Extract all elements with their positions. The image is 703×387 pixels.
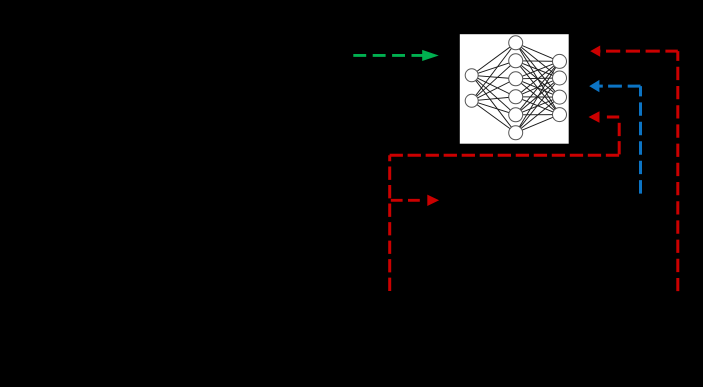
neural network nodes layer1 bbox=[465, 36, 566, 140]
blue arrow into agent (value/TD signal) bbox=[589, 80, 640, 195]
red branch arrow to environment bbox=[391, 195, 439, 206]
red reward arrow top right with feedback path from environment bbox=[590, 46, 678, 292]
green state arrow into agent bbox=[353, 50, 439, 61]
red lower arrow into agent with long feedback path bbox=[390, 111, 620, 291]
agent neural-network image box U1 bbox=[460, 34, 569, 144]
neural network nodes layer3 bbox=[553, 54, 567, 68]
neural network nodes layer2 bbox=[509, 36, 523, 50]
neural network edges bbox=[472, 43, 560, 133]
